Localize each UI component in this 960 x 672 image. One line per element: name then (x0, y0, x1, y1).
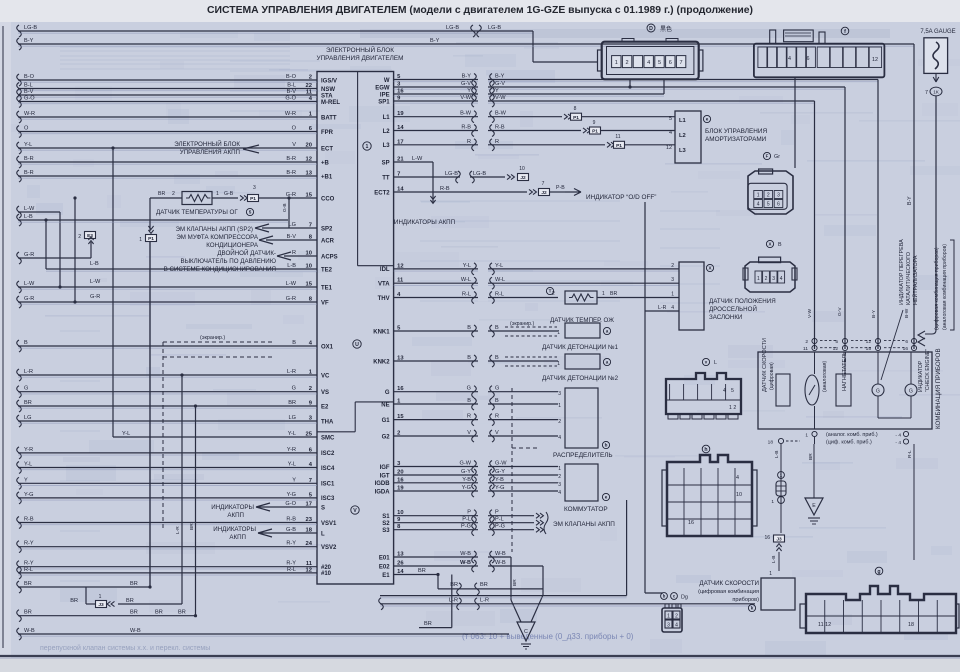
svg-text:1: 1 (557, 361, 560, 367)
OX1 shield dashed (163, 341, 272, 343)
svg-text:BR: BR (288, 400, 296, 406)
svg-text:R: R (467, 139, 471, 145)
svg-text:R-B: R-B (24, 517, 34, 523)
svg-text:1: 1 (366, 144, 369, 150)
svg-text:1: 1 (671, 292, 674, 298)
svg-text:V-W: V-W (807, 308, 813, 318)
svg-text:12: 12 (872, 57, 878, 63)
svg-text:F: F (766, 154, 769, 159)
svg-text:1: 1 (615, 60, 618, 66)
svg-text:Y-G: Y-G (495, 485, 504, 491)
svg-text:(цифровая): (цифровая) (769, 362, 775, 390)
svg-text:1: 1 (558, 403, 561, 409)
svg-text:L1: L1 (679, 118, 687, 124)
wire ECT2 pin14 (394, 191, 527, 193)
svg-text:P: P (495, 510, 499, 516)
svg-text:(аналоговая): (аналоговая) (822, 361, 828, 392)
svg-text:+B1: +B1 (321, 174, 333, 180)
cluster bottom pins (812, 431, 817, 436)
svg-text:B: B (467, 355, 471, 361)
svg-text:V: V (495, 430, 499, 436)
svg-text:W-L: W-L (495, 277, 505, 283)
svg-text:2: 2 (172, 191, 175, 197)
svg-text:C: C (524, 629, 528, 635)
svg-text:L-W: L-W (286, 281, 297, 287)
svg-text:L3: L3 (383, 143, 391, 149)
svg-text:НЕЙТРАЛИЗАТОРА: НЕЙТРАЛИЗАТОРА (911, 255, 919, 305)
svg-text:LG-B: LG-B (445, 171, 458, 177)
svg-text:3: 3 (772, 276, 775, 282)
svg-text:приборов): приборов) (732, 597, 759, 603)
svg-text:+B: +B (321, 160, 330, 166)
svg-text:12: 12 (866, 339, 872, 345)
svg-text:16: 16 (397, 386, 404, 392)
svg-text:R-Y: R-Y (24, 561, 34, 567)
svg-text:IGDB: IGDB (375, 481, 391, 487)
svg-text:G-O: G-O (285, 96, 296, 102)
svg-text:B-Y: B-Y (871, 309, 877, 318)
svg-text:3: 3 (671, 277, 674, 283)
svg-text:R-Y: R-Y (286, 561, 296, 567)
svg-text:7: 7 (309, 478, 312, 484)
wire IPE pin16 (394, 93, 664, 95)
svg-text:1: 1 (602, 291, 605, 297)
svg-text:2: 2 (626, 60, 629, 66)
svg-text:W-R: W-R (285, 111, 296, 117)
wire B-Y top (17, 38, 22, 50)
wire S1 pin10 (394, 515, 534, 517)
vertical bus x75 (74, 198, 76, 302)
svg-text:2: 2 (558, 419, 561, 425)
svg-text:ИНДИКАТОР: ИНДИКАТОР (918, 360, 924, 392)
knock sensor 2 (565, 354, 600, 369)
svg-text:W-B: W-B (24, 628, 35, 634)
svg-text:4: 4 (647, 60, 650, 66)
svg-text:BR: BR (126, 598, 134, 604)
wire KNK1 pin5 (394, 330, 558, 332)
connector F label (841, 27, 849, 35)
svg-text:ЭМ МУФТА КОМПРЕССОРА: ЭМ МУФТА КОМПРЕССОРА (176, 234, 259, 241)
svg-text:L-B: L-B (774, 451, 780, 458)
svg-text:FPR: FPR (321, 130, 334, 136)
svg-text:19: 19 (397, 111, 404, 117)
wire L-R to ECU pin 1 VC (17, 369, 22, 381)
svg-text:B-Y: B-Y (907, 196, 913, 205)
svg-text:W-B: W-B (495, 560, 506, 566)
svg-text:1: 1 (805, 433, 808, 439)
svg-text:ДВОЙНОЙ ДАТЧИК-: ДВОЙНОЙ ДАТЧИК- (217, 249, 276, 257)
wire R-Y to ECU pin 24 VSV2 (17, 541, 22, 553)
wire TT pin7 (394, 176, 460, 178)
svg-text:BR: BR (480, 582, 488, 588)
svg-text:(экранир.): (экранир.) (510, 321, 535, 327)
wire R to ECU pin 10 ACPS (284, 255, 317, 257)
connector V label (702, 358, 709, 365)
coolant temp sensor R2 (565, 291, 597, 304)
svg-text:B-L: B-L (287, 83, 296, 89)
connector X B label (766, 240, 773, 247)
svg-text:G-R: G-R (24, 296, 34, 302)
svg-text:P1: P1 (250, 196, 256, 202)
svg-text:Y-B: Y-B (462, 477, 471, 483)
svg-text:1: 1 (216, 191, 219, 197)
svg-text:КОНДИЦИОНЕРА: КОНДИЦИОНЕРА (206, 242, 259, 249)
svg-text:BR: BR (512, 579, 518, 586)
svg-text:BR: BR (158, 191, 165, 197)
svg-text:(цифровая комбинация: (цифровая комбинация (698, 589, 759, 595)
connector D label (647, 24, 655, 32)
svg-text:f: f (844, 29, 846, 35)
svg-text:V: V (353, 508, 357, 514)
fuse arrows into cluster (918, 331, 925, 346)
connector Dg (662, 608, 682, 632)
svg-text:R-B: R-B (461, 125, 471, 131)
svg-text:2: 2 (309, 75, 312, 81)
connector h label (702, 445, 710, 453)
svg-text:3: 3 (253, 185, 256, 191)
svg-text:G-W: G-W (495, 461, 507, 467)
svg-text:1: 1 (557, 330, 560, 336)
svg-text:15: 15 (306, 282, 313, 288)
svg-text:B-V: B-V (287, 234, 297, 240)
wire CCO branch (287, 196, 290, 199)
wire VTA pin11 (394, 282, 679, 284)
svg-text:В СИСТЕМЕ КОНДИЦИОНИРОВАНИЯ: В СИСТЕМЕ КОНДИЦИОНИРОВАНИЯ (164, 266, 276, 273)
svg-text:G-B: G-B (286, 527, 296, 533)
svg-text:J3: J3 (776, 537, 782, 543)
svg-text:7,5A GAUGE: 7,5A GAUGE (920, 29, 955, 35)
svg-text:LG: LG (289, 222, 296, 228)
svg-text:G: G (292, 386, 296, 392)
svg-text:W-B: W-B (460, 551, 471, 557)
svg-text:2: 2 (309, 386, 312, 392)
wire IGT pin20 (394, 474, 558, 476)
svg-text:B-R: B-R (286, 170, 296, 176)
svg-text:16: 16 (688, 520, 694, 526)
svg-text:10: 10 (736, 492, 742, 498)
svg-text:15: 15 (306, 193, 313, 199)
svg-text:СИСТЕМА УПРАВЛЕНИЯ ДВИГАТЕЛЕМ: СИСТЕМА УПРАВЛЕНИЯ ДВИГАТЕЛЕМ (модели с … (207, 5, 753, 16)
svg-text:5: 5 (767, 202, 770, 208)
svg-text:L2: L2 (679, 133, 686, 139)
distributor shield dashed (511, 388, 513, 552)
svg-text:CCO: CCO (321, 196, 335, 202)
svg-text:- 4: - 4 (895, 440, 901, 446)
svg-text:26: 26 (397, 561, 404, 567)
svg-text:ДАТЧИК ТЕМПЕРАТУРЫ ОГ: ДАТЧИК ТЕМПЕРАТУРЫ ОГ (156, 209, 238, 216)
speed sensor box (761, 578, 795, 610)
svg-text:Y-G: Y-G (24, 492, 33, 498)
svg-text:B: B (467, 398, 471, 404)
svg-text:2: 2 (671, 263, 674, 269)
svg-text:G-R: G-R (24, 252, 34, 258)
svg-text:B-Y: B-Y (462, 74, 472, 80)
svg-text:IDL: IDL (380, 267, 390, 273)
svg-text:1: 1 (757, 193, 760, 199)
svg-text:ISC4: ISC4 (321, 466, 335, 472)
svg-text:J2: J2 (541, 190, 547, 196)
wire E02 pin26 (394, 565, 543, 567)
svg-text:Y-L: Y-L (288, 431, 296, 437)
svg-text:L1: L1 (383, 115, 391, 121)
svg-text:G: G (876, 388, 880, 394)
svg-text:4: 4 (788, 56, 791, 62)
svg-text:VF: VF (321, 300, 329, 306)
svg-text:VTA: VTA (378, 282, 390, 288)
svg-text:LG: LG (24, 415, 31, 421)
svg-text:P-B: P-B (556, 185, 565, 191)
svg-text:R-L: R-L (24, 567, 33, 573)
svg-text:G-V: G-V (837, 307, 843, 316)
svg-text:b: b (663, 594, 666, 599)
svg-text:B-W: B-W (904, 308, 910, 318)
svg-text:10: 10 (306, 264, 312, 270)
svg-text:14: 14 (397, 569, 404, 575)
svg-text:B-L: B-L (24, 83, 33, 89)
svg-text:2: 2 (765, 276, 768, 282)
svg-text:S1: S1 (382, 514, 390, 520)
svg-text:5: 5 (731, 388, 734, 394)
svg-text:4: 4 (723, 388, 726, 394)
conn F stub (794, 77, 796, 168)
svg-text:G-R: G-R (286, 192, 296, 198)
wire IGDB pin16 (394, 482, 558, 484)
round connector F Gr label (763, 152, 770, 159)
svg-text:R-L: R-L (462, 292, 471, 298)
svg-text:O: O (24, 126, 29, 132)
svg-text:(аналог. комб. приб.): (аналог. комб. приб.) (826, 432, 878, 438)
svg-text:G: G (385, 390, 390, 396)
svg-text:J3: J3 (98, 602, 104, 608)
svg-text:SMC: SMC (321, 435, 335, 441)
svg-text:Y-G: Y-G (287, 492, 296, 498)
svg-text:U: U (355, 342, 359, 348)
svg-text:BATT: BATT (321, 115, 337, 121)
wire Y-L to ECU pin 25 SMC (113, 436, 317, 438)
svg-text:ISC3: ISC3 (321, 496, 335, 502)
svg-text:БЛОК УПРАВЛЕНИЯ: БЛОК УПРАВЛЕНИЯ (705, 128, 767, 135)
svg-text:перепускной клапан системы х.х: перепускной клапан системы х.х. и перекл… (40, 644, 210, 652)
svg-text:1: 1 (769, 571, 772, 577)
svg-text:12: 12 (306, 567, 312, 573)
svg-text:2: 2 (675, 613, 678, 619)
svg-text:E1: E1 (382, 573, 390, 579)
svg-text:a: a (606, 329, 609, 334)
svg-text:G: G (909, 388, 913, 394)
svg-text:ИНДИКАТОРЫ: ИНДИКАТОРЫ (211, 504, 254, 511)
circled U marker (353, 340, 361, 348)
svg-text:L-B: L-B (24, 214, 33, 220)
wire G-R to ECU pin 8 VF (17, 296, 22, 308)
svg-text:TT: TT (382, 175, 390, 181)
svg-text:E02: E02 (379, 564, 390, 570)
svg-text:10: 10 (306, 251, 312, 257)
svg-text:B-V: B-V (287, 89, 297, 95)
svg-text:13: 13 (397, 552, 404, 558)
svg-text:KNK2: KNK2 (373, 359, 390, 365)
svg-text:11: 11 (615, 134, 620, 140)
svg-text:Y-L: Y-L (288, 462, 296, 468)
svg-text:7: 7 (680, 60, 683, 66)
svg-text:G1: G1 (382, 418, 391, 424)
svg-text:X: X (769, 242, 772, 247)
circled V marker (351, 506, 359, 514)
connector E3 (85, 232, 96, 239)
svg-text:R-B: R-B (495, 125, 505, 131)
svg-text:P1: P1 (573, 115, 579, 121)
svg-text:G2: G2 (382, 434, 391, 440)
svg-text:L-W: L-W (24, 281, 35, 287)
wire B-R to ECU pin 13 +B1 (17, 170, 22, 182)
svg-text:Y-L: Y-L (24, 462, 32, 468)
svg-text:1: 1 (99, 594, 102, 600)
svg-text:SP1: SP1 (378, 99, 390, 105)
svg-text:E2: E2 (321, 404, 329, 410)
wire G-B to ECU pin 18 L (258, 532, 317, 534)
svg-text:S2: S2 (382, 521, 390, 527)
svg-text:4: 4 (675, 622, 678, 628)
svg-text:TE2: TE2 (321, 267, 333, 273)
svg-text:ДАТЧИК ДЕТОНАЦИИ №2: ДАТЧИК ДЕТОНАЦИИ №2 (542, 375, 619, 382)
svg-text:17: 17 (397, 139, 403, 145)
svg-text:Y-L: Y-L (463, 263, 471, 269)
svg-text:T: T (549, 289, 552, 294)
svg-text:NE: NE (381, 402, 389, 408)
svg-text:THV: THV (378, 296, 390, 302)
svg-text:R-B: R-B (440, 186, 450, 192)
wire mid bottom1 (380, 595, 627, 597)
svg-text:a: a (606, 360, 609, 365)
svg-text:L-R: L-R (24, 369, 33, 375)
svg-text:L-R: L-R (449, 598, 458, 604)
svg-text:LG-B: LG-B (24, 25, 37, 31)
svg-text:B: B (292, 340, 296, 346)
wire BR bottom2 (17, 610, 22, 622)
title ghost band (360, 29, 890, 38)
svg-text:КОММУТАТОР: КОММУТАТОР (564, 506, 608, 513)
svg-text:1K: 1K (933, 90, 940, 95)
wire L-W to ECU pin 15 TE1 (17, 281, 22, 293)
knock sensor 1 (565, 323, 600, 338)
connector P1 left (148, 226, 153, 229)
svg-text:G-R: G-R (286, 296, 296, 302)
wire L-B upper (17, 214, 22, 226)
svg-text:ISC1: ISC1 (321, 482, 335, 488)
svg-text:18: 18 (768, 440, 774, 446)
svg-text:P1: P1 (148, 236, 154, 242)
svg-text:11 12: 11 12 (818, 622, 831, 628)
svg-text:(циф. комб. приб.): (циф. комб. приб.) (826, 440, 872, 446)
svg-text:Y-R: Y-R (24, 447, 33, 453)
wire IGF pin3 (394, 466, 558, 468)
svg-text:ЗАСЛОНКИ: ЗАСЛОНКИ (709, 314, 742, 321)
wire S3 pin8 (394, 529, 534, 531)
svg-text:1: 1 (139, 237, 142, 243)
svg-text:12: 12 (306, 157, 312, 163)
wire L1 pin19 (394, 116, 562, 118)
svg-text:P-L: P-L (495, 517, 504, 523)
connector h (667, 455, 752, 536)
wire B-L to ECU pin 22 NSW (17, 83, 22, 95)
vertical bus x182 (181, 375, 183, 604)
wire THV pin4 (394, 297, 558, 299)
svg-text:ДАТЧИК ПОЛОЖЕНИЯ: ДАТЧИК ПОЛОЖЕНИЯ (709, 298, 776, 305)
svg-text:Y-B: Y-B (495, 477, 504, 483)
svg-text:BR: BR (70, 598, 78, 604)
svg-text:e: e (605, 495, 608, 500)
svg-text:P-G: P-G (461, 524, 471, 530)
svg-text:5: 5 (658, 60, 661, 66)
wire L-R bottom (380, 603, 755, 605)
svg-text:B-O: B-O (286, 74, 297, 80)
svg-text:23: 23 (306, 517, 313, 523)
fusible link chain (778, 472, 785, 479)
wire E01 pin13 (394, 556, 511, 558)
svg-text:1: 1 (771, 499, 774, 505)
svg-text:15: 15 (866, 346, 872, 352)
svg-text:10: 10 (519, 166, 525, 172)
svg-text:E01: E01 (379, 555, 390, 561)
svg-text:IPE: IPE (380, 92, 390, 98)
svg-text:11: 11 (306, 90, 313, 96)
connector g (806, 586, 956, 633)
svg-text:1: 1 (757, 276, 760, 282)
svg-text:B: B (467, 325, 471, 331)
svg-text:Y-L: Y-L (122, 431, 130, 437)
svg-text:(цифровая комбинация приборов): (цифровая комбинация приборов) (934, 247, 940, 330)
svg-text:M-REL: M-REL (321, 100, 340, 106)
wire LG to ECU pin 3 THA (17, 415, 22, 427)
svg-text:B: B (495, 325, 499, 331)
svg-text:P1: P1 (616, 143, 622, 149)
svg-text:R: R (467, 414, 471, 420)
connector D black (602, 42, 699, 80)
svg-text:13: 13 (306, 171, 313, 177)
svg-text:4: 4 (558, 490, 561, 496)
svg-text:ДАТЧИК СКОРОСТИ: ДАТЧИК СКОРОСТИ (699, 580, 759, 587)
igniter (565, 464, 598, 501)
svg-text:P-G: P-G (495, 524, 505, 530)
long vertical 1 (644, 202, 646, 593)
wire E1 pin14 (394, 574, 438, 576)
svg-text:S3: S3 (382, 528, 390, 534)
svg-text:B: B (495, 398, 499, 404)
svg-text:1: 1 (667, 613, 670, 619)
svg-text:BR: BR (24, 581, 32, 587)
svg-text:Y: Y (24, 477, 28, 483)
svg-text:2: 2 (78, 234, 81, 240)
wire Y-L branch vertical (112, 148, 114, 437)
svg-text:R-B: R-B (286, 517, 296, 523)
svg-text:G-B: G-B (282, 203, 288, 212)
svg-text:W-B: W-B (495, 551, 506, 557)
wire BR J3 row (86, 603, 96, 605)
svg-text:NSW: NSW (321, 87, 335, 93)
svg-text:O: O (292, 126, 297, 132)
svg-text:LG-B: LG-B (446, 25, 459, 31)
svg-text:L-B: L-B (90, 261, 99, 267)
svg-text:BR: BR (610, 291, 617, 297)
svg-text:G-W: G-W (460, 461, 472, 467)
wire O to ECU pin 6 FPR (17, 126, 22, 138)
svg-text:G-Y: G-Y (461, 469, 471, 475)
svg-text:KNK1: KNK1 (373, 329, 390, 335)
svg-text:Y-G: Y-G (462, 485, 471, 491)
svg-text:R-L: R-L (495, 292, 504, 298)
svg-text:Y-L: Y-L (24, 142, 32, 148)
svg-text:2: 2 (397, 431, 400, 437)
svg-text:6: 6 (807, 56, 810, 62)
